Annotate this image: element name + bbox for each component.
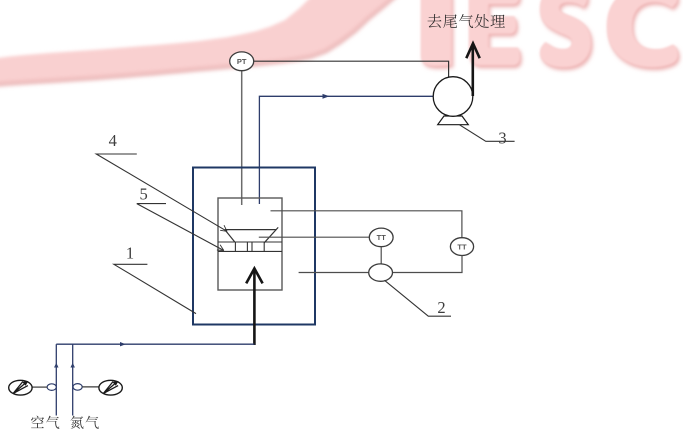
wire funnel to TT left bbox=[259, 236, 370, 238]
gas line vessel to pump (navy) bbox=[259, 96, 433, 204]
cell band dividers (item 5) bbox=[235, 242, 264, 251]
flow arrow on gas main line bbox=[120, 342, 126, 346]
leader line 5 with arrowhead bbox=[137, 204, 224, 251]
pipe fan to valve (air) bbox=[32, 386, 47, 388]
svg-text:5: 5 bbox=[139, 185, 147, 204]
funnel top bbox=[225, 229, 276, 231]
text 去尾气处理 (to tail gas treatment) bbox=[428, 14, 505, 28]
reactor outer shell (navy box, item 1) bbox=[193, 168, 315, 325]
svg-text:4: 4 bbox=[109, 131, 117, 150]
svg-text:1: 1 bbox=[126, 244, 134, 263]
instrument PT bbox=[230, 52, 254, 71]
instrument TT right bbox=[450, 238, 473, 256]
cell band top line bbox=[218, 241, 282, 243]
wire vessel to TT right bbox=[271, 211, 462, 238]
air branch vertical bbox=[55, 344, 57, 415]
instrument TT left bbox=[369, 228, 393, 247]
svg-text:PT: PT bbox=[237, 57, 247, 66]
tail gas arrow up bbox=[471, 46, 474, 96]
funnel right slant bbox=[264, 227, 278, 242]
leader line 2 bbox=[385, 280, 452, 316]
svg-text:TT: TT bbox=[377, 233, 387, 242]
labels 空气 氮气 bbox=[31, 416, 99, 429]
air source symbol bbox=[9, 380, 32, 395]
funnel left slant bbox=[225, 230, 235, 242]
svg-text:TT: TT bbox=[457, 242, 467, 251]
watermark swoosh band bbox=[0, 0, 398, 85]
nitrogen source symbol bbox=[99, 380, 122, 395]
wire TT left down to junction ellipse bbox=[380, 247, 382, 264]
leader line 1 bbox=[114, 264, 196, 313]
flow tick nitrogen branch bbox=[71, 364, 74, 367]
flow arrow on gas line bbox=[323, 94, 330, 99]
pump 3 base bbox=[438, 116, 469, 125]
cell band bottom line bbox=[218, 250, 282, 252]
inlet arrow into vessel bbox=[253, 269, 256, 345]
wire PT to pump top bbox=[254, 61, 449, 77]
watermark swoosh inner edge shading bbox=[0, 0, 398, 85]
valve nitrogen bbox=[73, 384, 82, 391]
wire TT right down then left to junction ellipse bbox=[393, 256, 463, 273]
inner vessel (item 4) bbox=[218, 198, 282, 290]
wire PT probe into vessel bbox=[241, 70, 243, 205]
pump 3 body bbox=[433, 77, 473, 117]
svg-text:3: 3 bbox=[498, 128, 506, 147]
leader line 4 with arrowhead bbox=[96, 154, 227, 231]
watermark IESC logo letters bbox=[421, 0, 678, 67]
watermark IESC letter shadows bbox=[423, 0, 680, 70]
valve air bbox=[47, 384, 56, 391]
junction ellipse (item 2) bbox=[369, 264, 393, 281]
gas main line (navy) bbox=[56, 343, 254, 345]
leader line 3 bbox=[460, 125, 515, 142]
flow tick air branch bbox=[55, 364, 58, 367]
wire junction ellipse to left bbox=[299, 272, 369, 274]
svg-text:2: 2 bbox=[437, 298, 445, 317]
pipe valve to fan (nitrogen) bbox=[82, 386, 99, 388]
nitrogen branch vertical bbox=[72, 344, 74, 415]
